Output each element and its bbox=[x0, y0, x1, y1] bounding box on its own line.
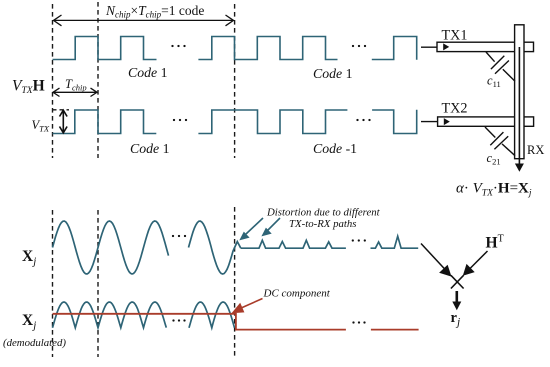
svg-text:Distortion due to different: Distortion due to different bbox=[266, 207, 381, 219]
capacitor c11 plates bbox=[491, 56, 504, 69]
ellipsis row2 code1 bbox=[173, 119, 187, 121]
svg-text:Code 1: Code 1 bbox=[128, 65, 168, 80]
RX output arrowhead bbox=[515, 164, 524, 172]
distorted spike train after code end bbox=[241, 236, 418, 248]
ellipsis row2 code2 bbox=[356, 119, 370, 121]
svg-text:(demodulated): (demodulated) bbox=[3, 337, 66, 349]
ellipsis row1 code2 bbox=[352, 45, 366, 47]
ellipsis row4 right bbox=[352, 321, 365, 323]
dashed chip boundary line left (bottom) bbox=[52, 210, 54, 357]
ellipsis row3 right bbox=[352, 239, 366, 241]
T_chip dimension arrow bbox=[53, 88, 97, 96]
output arrow to r_j bbox=[452, 291, 461, 310]
dashed chip boundary line middle (top) bbox=[97, 2, 99, 158]
dashed code boundary line right (bottom) bbox=[234, 207, 236, 358]
wire from TX2 waveform to TX2 antenna bbox=[421, 121, 444, 123]
svg-text:Code -1: Code -1 bbox=[313, 141, 357, 156]
svg-text:TX2: TX2 bbox=[442, 101, 468, 117]
capacitor c21 plates bbox=[490, 132, 503, 145]
ellipsis row4 left bbox=[172, 319, 185, 321]
arrow from H^T to multiplier bbox=[463, 251, 488, 276]
RX antenna bar bbox=[515, 25, 524, 159]
svg-text:TX1: TX1 bbox=[442, 28, 468, 44]
ellipsis row3 left bbox=[172, 235, 186, 237]
arrow from spikes to multiplier bbox=[421, 244, 452, 277]
TX1 antenna bar bbox=[437, 42, 534, 51]
capacitor c11 coupling wire 1 bbox=[486, 52, 495, 62]
demodulated humps part 1 bbox=[53, 302, 167, 328]
DC component arrow bbox=[232, 299, 263, 314]
distortion arrow 2 bbox=[261, 218, 280, 236]
RX feed line bbox=[518, 47, 520, 165]
dashed code boundary line right (top) bbox=[234, 4, 236, 158]
TX2 square wave (Code 1 then Code -1) bbox=[53, 110, 417, 134]
TX2 feed arrow bbox=[444, 118, 450, 125]
X_j sinusoid part 1 bbox=[53, 221, 169, 274]
distortion arrow 1 bbox=[239, 218, 263, 240]
V_TX amplitude arrow bbox=[60, 110, 68, 133]
svg-text:RX: RX bbox=[527, 143, 544, 157]
ellipsis row1 code1 bbox=[171, 45, 185, 47]
dashed chip boundary line middle (bottom) bbox=[97, 210, 99, 357]
svg-text:α· VTX·H=Xj: α· VTX·H=Xj bbox=[456, 181, 532, 199]
dashed level reference for V_TX bbox=[53, 109, 70, 111]
dashed chip boundary line left (top) bbox=[52, 4, 54, 158]
svg-text:TX-to-RX paths: TX-to-RX paths bbox=[289, 218, 356, 230]
multiplier X bbox=[451, 275, 464, 288]
capacitor c21 coupling wire 2 bbox=[502, 144, 515, 156]
capacitor c11 coupling wire 2 bbox=[503, 69, 515, 81]
code length dimension arrow (N_chip x T_chip = 1 code) bbox=[54, 15, 234, 26]
X_j sinusoid part 2 with distorted end bbox=[189, 221, 241, 274]
TX2 antenna bar bbox=[438, 117, 534, 126]
TX1 square wave (Code 1 then Code 1) bbox=[53, 37, 417, 60]
svg-text:Code 1: Code 1 bbox=[313, 66, 353, 81]
capacitor c21 coupling wire 1 bbox=[485, 127, 495, 138]
demodulated humps part 2 bbox=[189, 302, 235, 328]
svg-text:DC component: DC component bbox=[263, 288, 331, 300]
DC component red line with step down bbox=[53, 314, 419, 330]
TX1 feed arrow bbox=[443, 43, 449, 50]
wire from TX1 waveform to TX1 antenna bbox=[421, 46, 444, 48]
svg-text:Code 1: Code 1 bbox=[130, 141, 170, 156]
